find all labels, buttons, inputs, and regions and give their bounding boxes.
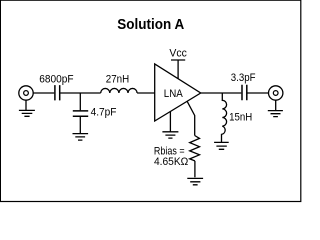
connector J1 (input port) [19, 86, 33, 100]
svg-text:Solution A: Solution A [117, 16, 184, 33]
capacitor C3 3.3pF [242, 85, 247, 100]
svg-text:15nH: 15nH [229, 112, 252, 124]
inductor L2 15nH vertical [222, 93, 227, 142]
svg-text:3.3pF: 3.3pF [231, 72, 256, 84]
ground (under U1) [162, 111, 178, 138]
op-amp U1 LNA triangle [155, 64, 201, 121]
svg-text:Vcc: Vcc [169, 48, 187, 60]
svg-text:4.65KΩ: 4.65KΩ [154, 156, 188, 168]
inductor L1 27nH [101, 88, 137, 93]
Vcc supply bar [171, 60, 185, 79]
wire (L1 to U1 input) [137, 92, 155, 94]
ground (under J2) [268, 100, 283, 116]
svg-text:4.7pF: 4.7pF [91, 106, 117, 118]
ground (under R1) [187, 178, 203, 184]
connector J2 (output port) [269, 86, 283, 100]
capacitor C1 6800pF [55, 85, 60, 100]
ground (under L2) [214, 142, 229, 149]
resistor R1 Rbias [190, 136, 200, 161]
wire (C1 to node A to L1) [60, 92, 100, 94]
svg-text:LNA: LNA [164, 88, 184, 100]
wire (bias tap to R1) [187, 101, 195, 135]
wire (C3 to J2) [248, 92, 269, 94]
ground (under J1) [19, 100, 35, 116]
wire (R1 to ground) [194, 161, 196, 177]
ground (under C2) [73, 134, 89, 141]
wire (C2 to ground) [79, 117, 81, 133]
wire (J1 to C1) [33, 92, 54, 94]
svg-text:6800pF: 6800pF [39, 74, 74, 86]
node A junction stub down [79, 93, 81, 110]
border frame [0, 0, 300, 201]
wire (U1 output to C3) [201, 92, 242, 94]
svg-text:27nH: 27nH [106, 74, 129, 86]
capacitor C2 4.7pF [73, 111, 88, 116]
